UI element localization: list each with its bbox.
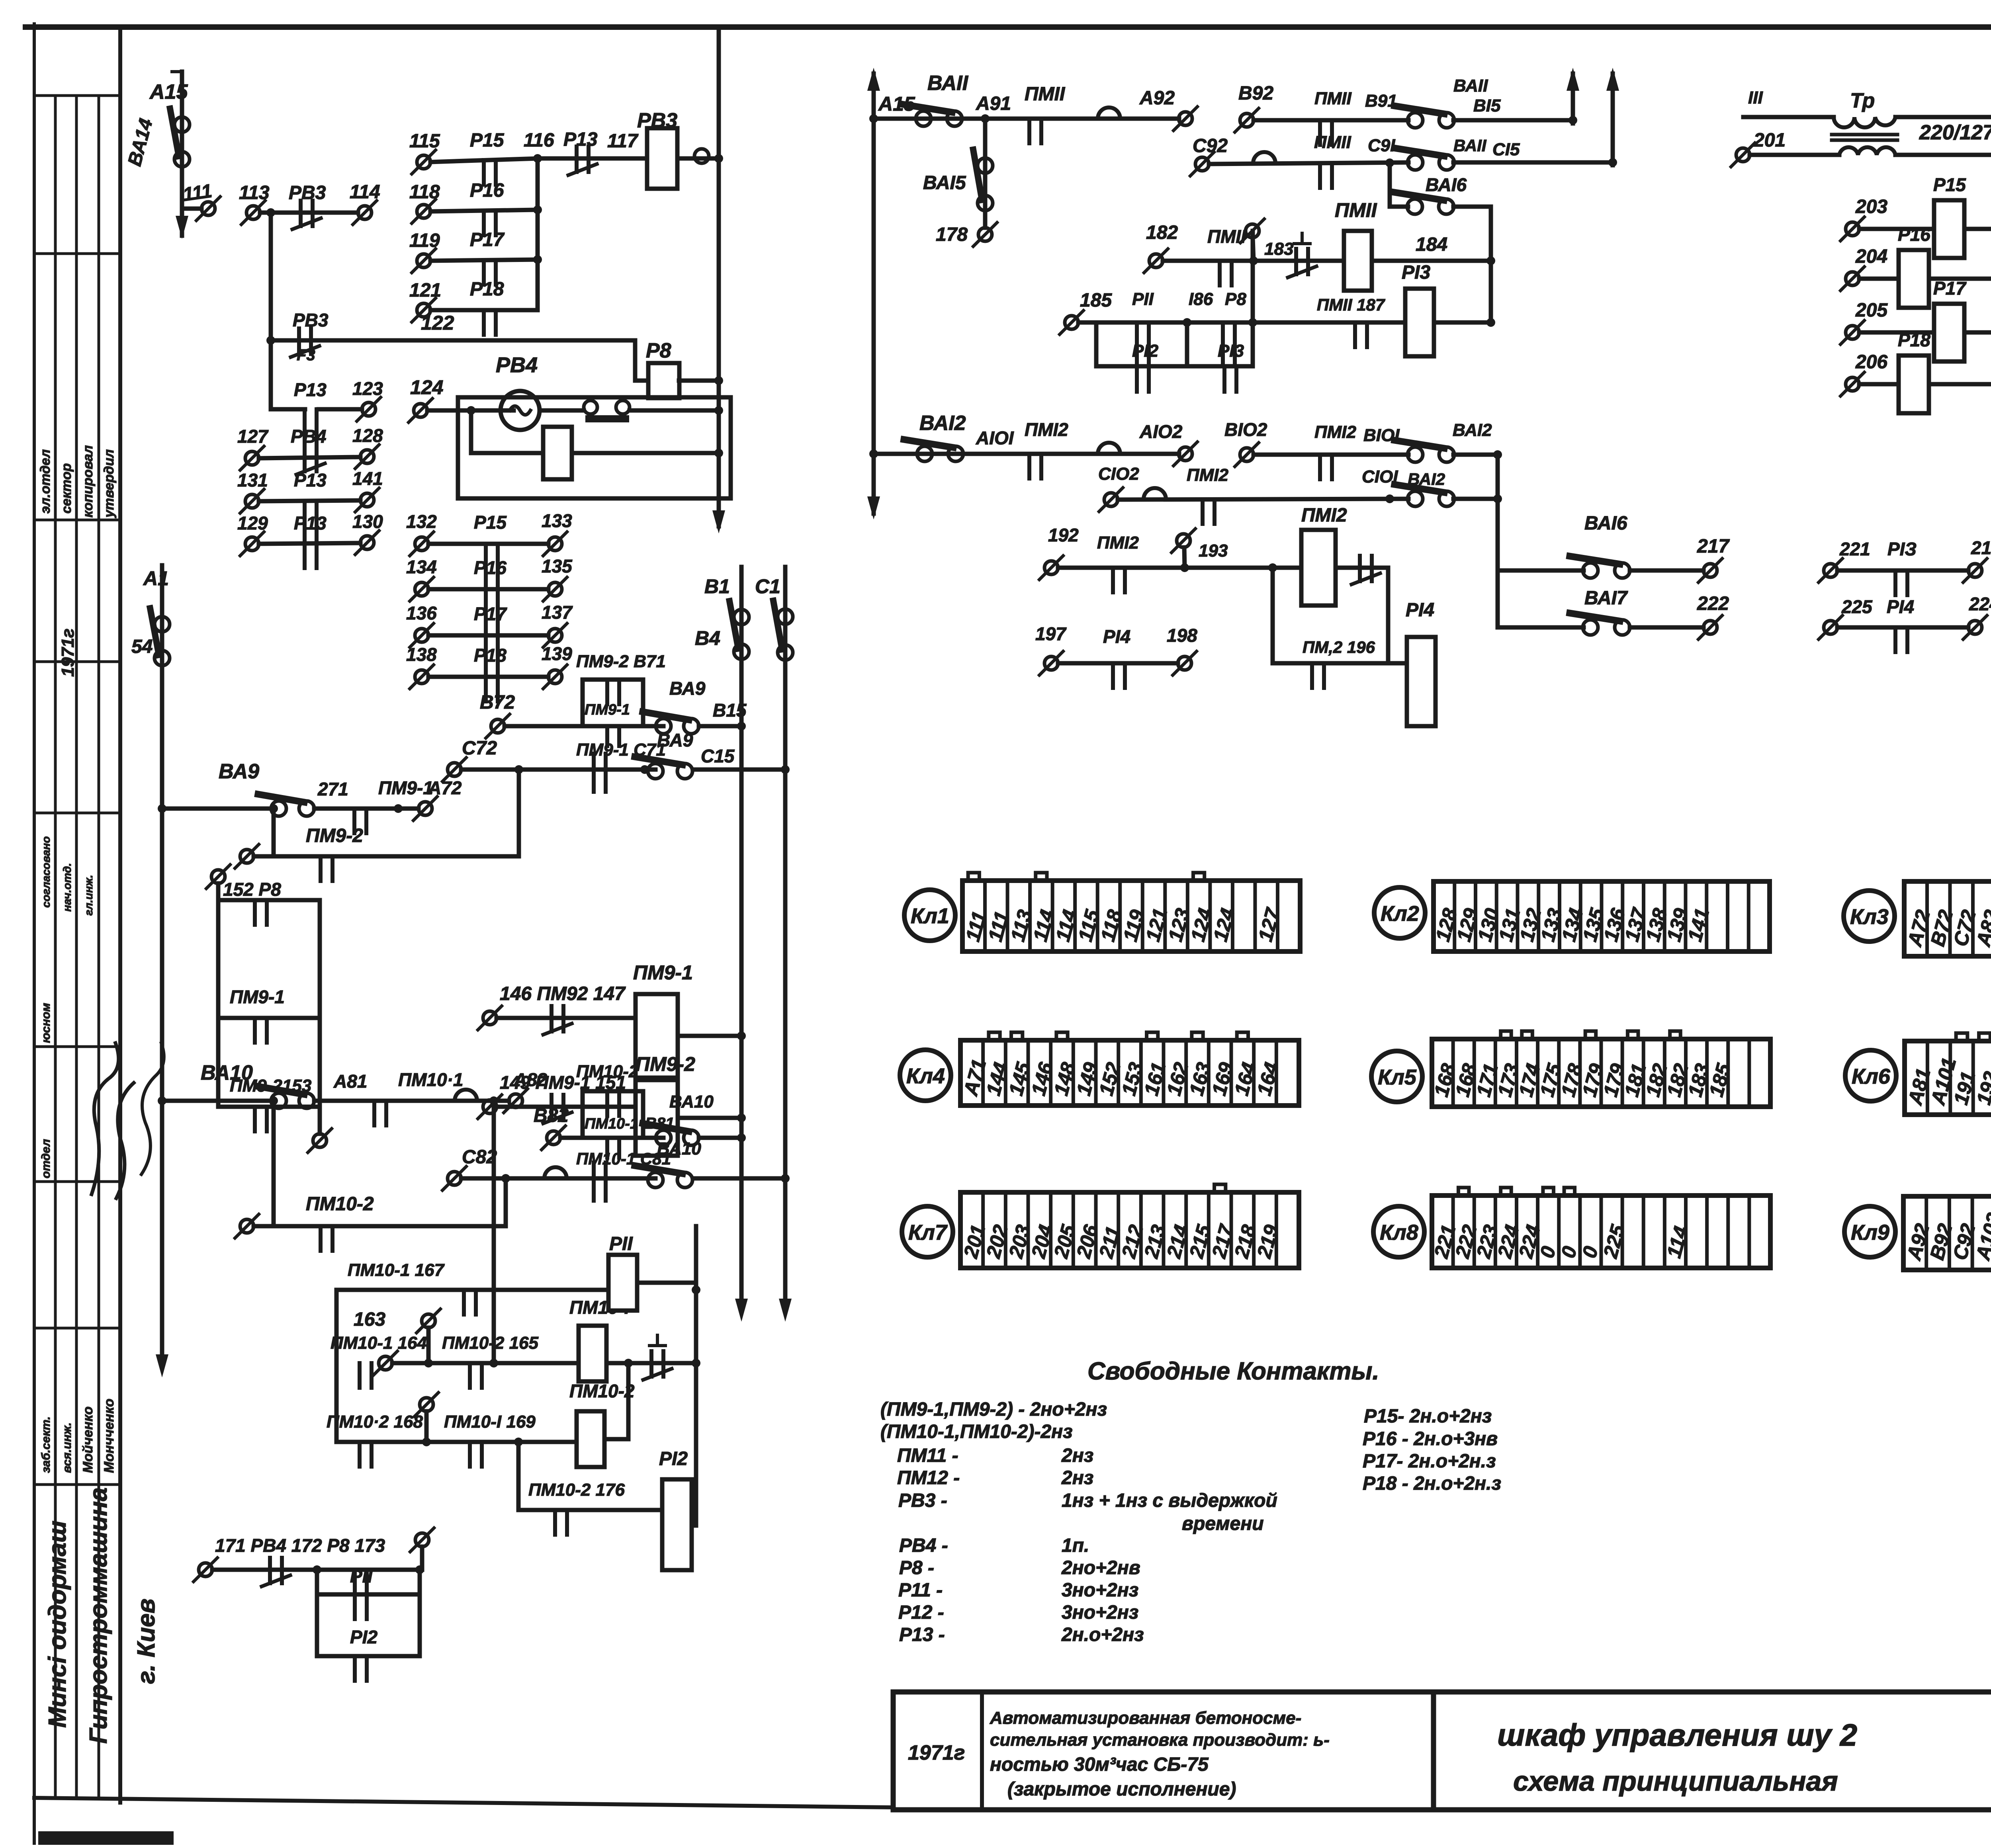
upper branch vertical 167 (334, 1290, 339, 1363)
svg-text:отдел: отдел (39, 1139, 53, 1178)
svg-text:192: 192 (1048, 525, 1079, 545)
svg-text:ПМI2: ПМI2 (1301, 505, 1347, 526)
wire 124 into PB4 box (427, 408, 514, 413)
stamp column line 3 (98, 96, 100, 1798)
switch BA11 A (916, 111, 931, 126)
title block v1 (980, 1692, 984, 1810)
svg-text:ПМ9-2: ПМ9-2 (306, 825, 363, 846)
svg-text:ПМ11 -: ПМ11 - (897, 1445, 958, 1466)
wire alternator to contact (540, 408, 584, 413)
switch BA10 A-phase (271, 1093, 286, 1108)
svg-text:ПМ10·2 168: ПМ10·2 168 (327, 1412, 423, 1432)
terminal A92 (1179, 112, 1192, 125)
coil PM11 (1344, 231, 1372, 291)
svg-text:Кл8: Кл8 (1380, 1221, 1418, 1244)
wire 225 row (1837, 625, 1968, 630)
terminal 203 (1846, 222, 1859, 236)
switch BA14 feeder line (180, 72, 184, 236)
contact PM9-1 149 time (550, 1095, 553, 1120)
svg-text:1971г: 1971г (58, 629, 78, 677)
junction C101 (1385, 494, 1394, 503)
contact PM10-1 169 (468, 1442, 472, 1467)
svg-text:ПМI2: ПМI2 (1314, 422, 1357, 442)
terminal 173 above (415, 1533, 429, 1547)
svg-text:ВАI2: ВАI2 (1453, 420, 1492, 440)
wire B72 row (505, 724, 663, 729)
svg-text:РI2: РI2 (350, 1627, 377, 1647)
svg-text:182: 182 (1146, 222, 1178, 243)
parallel box PM9-2/B71 left leg (581, 680, 585, 726)
svg-text:Кл4: Кл4 (906, 1064, 945, 1088)
vertical join 167-168 rows (334, 1290, 339, 1442)
terminal block Кл1 circle (904, 890, 955, 941)
junction C82 row (501, 1174, 510, 1183)
stamp divider 9 (34, 1483, 120, 1486)
svg-text:271: 271 (317, 779, 348, 799)
svg-text:131: 131 (237, 470, 268, 490)
bus C mid arrow (1606, 68, 1619, 91)
contact P13 221 (1893, 570, 1897, 595)
contact PM10-2 in box (605, 1091, 609, 1116)
transformer primary (1834, 117, 1895, 127)
parallel box right leg (641, 680, 645, 726)
svg-text:117: 117 (607, 131, 639, 152)
riser PM10-2 coil to 163 row (626, 1363, 631, 1439)
wire 185 row (1078, 320, 1406, 325)
drop to P14 coil row (1386, 568, 1391, 663)
contact PB4 171 time (268, 1558, 272, 1583)
svg-text:РI2: РI2 (659, 1448, 688, 1469)
riser PM10-2 row to C82 row (504, 1178, 508, 1226)
terminal 114 (358, 206, 372, 219)
wire B102 row (1254, 453, 1408, 457)
switch BA9 C-phase (648, 764, 663, 779)
svg-text:Минсі оидормаш: Минсі оидормаш (44, 1521, 71, 1728)
terminal 197 (1044, 656, 1058, 670)
svg-text:В92: В92 (1238, 83, 1273, 104)
svg-text:ПМII 187: ПМII 187 (1317, 295, 1385, 314)
terminal 178 (978, 228, 992, 241)
svg-text:54: 54 (131, 636, 153, 657)
P12 branch wire (317, 1654, 420, 1659)
terminal 205 (1846, 326, 1859, 339)
row BA10 wire (162, 1099, 271, 1103)
wire coil PM9-2 to B1 bus (678, 1116, 741, 1120)
svg-text:Мончченко: Мончченко (102, 1399, 117, 1473)
wire contact to bus (630, 408, 719, 413)
svg-text:ПМ10-1 167: ПМ10-1 167 (348, 1260, 445, 1280)
terminal 139 (548, 670, 562, 684)
terminal 136 (415, 629, 428, 642)
box 152 bottom row (218, 1105, 320, 1109)
svg-text:вся.инж.: вся.инж. (61, 1422, 74, 1473)
svg-text:Р15: Р15 (470, 130, 505, 151)
svg-text:Свободные Контакты.: Свободные Контакты. (1087, 1358, 1379, 1385)
wire P8 coil to bus (679, 379, 719, 383)
terminal 149 (483, 1100, 497, 1113)
sheet bottom border left part (34, 1798, 893, 1807)
drop B101 C101 vertical (1496, 455, 1500, 627)
PB4 inner coil (543, 427, 572, 479)
box 152 top row (218, 898, 320, 903)
stub 168 (424, 1411, 429, 1442)
svg-text:юсном: юсном (39, 1003, 53, 1043)
svg-text:А15: А15 (149, 80, 188, 104)
svg-text:РI4: РI4 (1103, 626, 1130, 647)
terminal 182 (1149, 254, 1163, 268)
terminal block Кл7 circle (902, 1206, 953, 1257)
svg-text:ВIО2: ВIО2 (1224, 419, 1267, 440)
svg-text:3но+2нз: 3но+2нз (1062, 1602, 1138, 1623)
terminal 192 (1044, 561, 1058, 574)
svg-text:СIО2: СIО2 (1098, 464, 1139, 484)
svg-text:197: 197 (1035, 623, 1067, 644)
row 119 terminal (417, 254, 430, 268)
wire 122 line (271, 338, 635, 343)
svg-text:согласовано: согласовано (40, 836, 52, 908)
wire BA17 row (1498, 625, 1584, 630)
wire 163 row (392, 1361, 576, 1365)
svg-text:129: 129 (237, 513, 268, 533)
svg-text:183: 183 (1264, 239, 1293, 259)
svg-text:А81: А81 (333, 1071, 367, 1092)
svg-text:АIО2: АIО2 (1139, 421, 1183, 442)
svg-text:205: 205 (1855, 300, 1888, 321)
terminal PM10-2 row left (240, 1219, 254, 1233)
svg-text:СI5: СI5 (1492, 140, 1520, 159)
contact P12 branch (353, 1656, 357, 1681)
parallel frame 185 bottom (1096, 364, 1253, 369)
svg-text:137: 137 (542, 602, 573, 623)
wire PM10-2 row (254, 1224, 506, 1229)
drop A82 to 164 row (492, 1101, 496, 1363)
wire 118 (430, 210, 538, 211)
svg-text:123: 123 (352, 378, 383, 399)
svg-text:сительная установка производит: сительная установка производит: ь- (990, 1730, 1330, 1750)
stub 183 vertical (1253, 238, 1254, 261)
terminal 206 (1846, 377, 1859, 391)
svg-text:С15: С15 (701, 746, 735, 766)
terminal 124 (414, 404, 427, 417)
wire coil PM9-1 to B1 bus (678, 1034, 741, 1038)
wire C92 row (1209, 162, 1408, 164)
svg-text:Кл5: Кл5 (1378, 1065, 1417, 1089)
svg-text:Р18: Р18 (1898, 330, 1930, 350)
wire BA16 right (1453, 205, 1491, 209)
svg-text:116: 116 (524, 130, 554, 151)
wire 121 (430, 308, 538, 313)
stamp divider 4 (34, 660, 120, 663)
switch BA14 (174, 117, 190, 132)
terminal 152 (211, 870, 225, 883)
svg-text:139: 139 (542, 643, 572, 664)
bus M arrow up (867, 68, 880, 91)
row BA9 wire (162, 807, 271, 811)
contact P8 172 (353, 1570, 357, 1594)
stamp divider 5 (34, 812, 120, 815)
coil Р17 205 (1934, 304, 1964, 361)
svg-text:ПМ10-2: ПМ10-2 (306, 1194, 374, 1215)
svg-text:г. Киев: г. Киев (133, 1598, 160, 1684)
coil Р16 204 (1899, 250, 1929, 308)
svg-text:ПМ10-2: ПМ10-2 (576, 1062, 639, 1081)
svg-text:Р8 -: Р8 - (899, 1557, 934, 1578)
svg-text:III: III (1748, 88, 1763, 107)
wire B101 out (1453, 453, 1498, 457)
svg-text:копировал: копировал (80, 445, 96, 518)
svg-text:Р12 -: Р12 - (898, 1602, 944, 1623)
wire row 136 (428, 633, 548, 638)
junction 165 (489, 1359, 498, 1367)
terminal 137 (548, 629, 562, 642)
svg-text:ВА9: ВА9 (669, 678, 706, 699)
terminal block Кл3 circle (1844, 891, 1895, 942)
svg-text:РII: РII (1132, 289, 1154, 309)
drawing frame left border (118, 27, 122, 1803)
svg-text:220/127: 220/127 (1919, 121, 1991, 144)
terminal block Кл4 circle (900, 1050, 951, 1101)
contact PM11 C row (1318, 163, 1322, 188)
terminal block Кл2 body (1434, 881, 1770, 951)
svg-text:2н.о+2нз: 2н.о+2нз (1061, 1624, 1144, 1645)
junction 169 (514, 1438, 523, 1446)
stamp divider 2 (34, 252, 120, 255)
svg-text:171 РВ4 172 Р8 173: 171 РВ4 172 Р8 173 (215, 1535, 385, 1556)
terminal block Кл1 body (962, 881, 1300, 951)
terminal 130 (360, 536, 374, 549)
stub 173 (420, 1547, 424, 1570)
svg-text:Р8: Р8 (646, 339, 671, 362)
contact P16 (482, 211, 486, 235)
wire B15 to B1 bus (699, 724, 741, 729)
terminal block Кл5 circle (1371, 1051, 1422, 1102)
stamp divider 8 (34, 1327, 120, 1330)
bus B1 (739, 567, 744, 1298)
svg-text:198: 198 (1167, 625, 1197, 646)
frame 185 mid leg (1185, 322, 1189, 366)
svg-text:ВА10: ВА10 (657, 1139, 701, 1158)
contact PM12 C row (1201, 499, 1205, 524)
terminal block Кл7 body (960, 1192, 1299, 1268)
svg-text:ВА9: ВА9 (219, 760, 259, 783)
svg-text:ПМ12 -: ПМ12 - (897, 1467, 960, 1489)
wire 184 (1372, 259, 1491, 263)
svg-text:Р16 - 2н.о+3нв: Р16 - 2н.о+3нв (1363, 1428, 1498, 1449)
contact P14 225 (1893, 627, 1897, 652)
terminal 146 (483, 1011, 497, 1025)
stamp divider 3 (34, 519, 120, 522)
contact P13 129 (303, 543, 307, 568)
terminal 183 above (1246, 224, 1259, 238)
svg-text:ПМ9-1: ПМ9-1 (633, 961, 693, 984)
wire BA16 row right (1498, 568, 1584, 573)
svg-text:Р13: Р13 (294, 513, 327, 533)
svg-text:РВ4 -: РВ4 - (899, 1535, 948, 1556)
label ground 163 row (649, 1344, 665, 1347)
terminal block Кл6 body (1905, 1041, 1991, 1115)
svg-text:1971г: 1971г (908, 1741, 965, 1764)
wire 204 row (1859, 277, 1991, 281)
parallel box top bar (583, 678, 643, 682)
wire 205 row (1859, 330, 1991, 335)
svg-text:152 Р8: 152 Р8 (223, 879, 281, 900)
terminal 193 above (1177, 534, 1190, 547)
svg-text:АIОI: АIОI (976, 428, 1014, 448)
contact PB3 time on 122 (297, 328, 301, 354)
contact PM12 192 (1111, 568, 1115, 592)
terminal 133 (548, 537, 562, 551)
terminal 138 (415, 670, 428, 684)
wire coil to cap 163 row (606, 1361, 696, 1365)
svg-text:ПМ10-2: ПМ10-2 (569, 1381, 635, 1401)
sheet left edge (33, 24, 36, 1843)
svg-text:РВ3: РВ3 (289, 182, 326, 203)
svg-text:ПМ9-1: ПМ9-1 (230, 987, 285, 1007)
junction 173 (415, 1565, 424, 1574)
svg-text:Гипростроммашина: Гипростроммашина (85, 1487, 112, 1744)
wire 197 row (1058, 661, 1178, 666)
svg-text:163: 163 (354, 1309, 385, 1330)
wire 176 row (518, 1508, 662, 1512)
svg-text:шкаф управления шу 2: шкаф управления шу 2 (1497, 1717, 1857, 1752)
wire C102 row (1118, 499, 1408, 500)
wire BA9 to A71 (314, 807, 390, 811)
svg-text:Р16: Р16 (474, 557, 507, 578)
parallel box PM10 left leg (581, 1091, 585, 1138)
svg-text:ностью 30м³час СБ-75: ностью 30м³час СБ-75 (990, 1754, 1209, 1775)
contact PB4 127 time (303, 446, 307, 471)
bus M vertical (872, 74, 876, 514)
svg-text:138: 138 (406, 644, 437, 665)
svg-text:А1: А1 (143, 567, 169, 590)
svg-text:заб.сект.: заб.сект. (39, 1416, 53, 1473)
svg-text:(ПМ9-1,ПМ9-2) - 2но+2нз: (ПМ9-1,ПМ9-2) - 2но+2нз (880, 1399, 1107, 1420)
cap contact 163 row (649, 1351, 653, 1377)
label cap 183 (1294, 242, 1310, 245)
svg-text:122: 122 (421, 312, 454, 334)
switch BA12 A (917, 446, 932, 461)
coil PM10-1 163 row (579, 1326, 606, 1381)
wire C15 to C bus (1453, 160, 1613, 165)
svg-text:В72: В72 (480, 692, 515, 713)
wire 146 row (497, 1016, 635, 1020)
svg-text:ПМ10-1 164: ПМ10-1 164 (331, 1333, 427, 1353)
bus C1 (783, 567, 788, 1298)
svg-text:В4: В4 (695, 627, 720, 649)
svg-text:Кл1: Кл1 (911, 904, 949, 928)
contact PM11 182 (1218, 261, 1222, 285)
switch BA10 C-phase (648, 1172, 663, 1188)
contact P11 branch (353, 1594, 357, 1619)
contact PM11 A row (1027, 119, 1031, 143)
title block outer (893, 1692, 1991, 1810)
contact PM9-1 on B72 row (605, 726, 609, 746)
terminal 134 (415, 582, 428, 596)
terminal 185 (1065, 316, 1078, 329)
svg-text:Р15- 2н.о+2нз: Р15- 2н.о+2нз (1364, 1406, 1492, 1427)
row 118 terminal (417, 205, 430, 218)
contact PM10-2 163 row (468, 1363, 472, 1388)
wire 127 row (259, 457, 360, 458)
svg-text:201: 201 (1753, 130, 1786, 151)
wire 201 row (1750, 153, 1839, 157)
wire BA17 to 222 (1630, 625, 1703, 630)
box 152 mid row (218, 1016, 320, 1020)
svg-text:Р13: Р13 (294, 379, 327, 400)
terminal block Кл6 circle (1845, 1050, 1896, 1101)
svg-text:184: 184 (1416, 234, 1447, 255)
svg-text:ВАI5: ВАI5 (923, 172, 966, 193)
bus A1 arrow (156, 1354, 168, 1377)
svg-text:Р17: Р17 (474, 604, 507, 624)
svg-text:225: 225 (1841, 596, 1873, 617)
hop C82 row (544, 1167, 567, 1178)
svg-text:136: 136 (406, 603, 437, 623)
svg-text:РI4: РI4 (1406, 600, 1434, 621)
svg-text:ПМ,2 196: ПМ,2 196 (1303, 638, 1375, 656)
terminal 123 (362, 402, 376, 416)
switch A1-A4 (155, 617, 170, 632)
svg-text:135: 135 (542, 556, 573, 576)
contact PM10-1 A row (372, 1101, 376, 1125)
title block v2 (1431, 1692, 1436, 1810)
svg-text:185: 185 (1080, 290, 1112, 311)
contact Р15 (484, 544, 488, 589)
contact PM12 B row (1318, 455, 1322, 479)
svg-text:132: 132 (406, 511, 437, 532)
svg-text:ВАII: ВАII (1453, 136, 1487, 155)
bus 183 down (1251, 231, 1255, 366)
hop A row BA10 (455, 1090, 477, 1101)
junction C row (640, 765, 649, 774)
terminal 132 (415, 537, 428, 551)
bottom-left fold bar (38, 1831, 174, 1845)
wire coil P12 to bus (692, 1508, 696, 1512)
wire P14 coil row (1273, 661, 1407, 666)
svg-text:Р13: Р13 (563, 129, 598, 150)
parallel box PM10 right leg (641, 1091, 645, 1138)
svg-text:Кл3: Кл3 (1850, 905, 1889, 929)
svg-text:А82: А82 (513, 1069, 548, 1090)
svg-text:А92: А92 (1139, 88, 1175, 109)
svg-text:133: 133 (542, 510, 572, 531)
wire coil P11 to bus (637, 1281, 696, 1285)
terminal 224 (1968, 621, 1982, 634)
svg-text:РIЗ: РIЗ (1887, 539, 1917, 559)
svg-text:124: 124 (410, 376, 443, 399)
upper branch wire 167 (336, 1288, 609, 1292)
PB4 inner coil line (471, 451, 719, 455)
wire to A72 (390, 807, 419, 811)
svg-text:F3: F3 (297, 346, 315, 364)
svg-text:219: 219 (1971, 537, 1991, 558)
svg-text:ВАI7: ВАI7 (1584, 588, 1628, 609)
svg-text:222: 222 (1697, 593, 1729, 614)
svg-text:114: 114 (350, 182, 380, 203)
wire 182 row (1163, 259, 1344, 263)
wire row 132 (428, 542, 548, 546)
svg-text:115: 115 (409, 131, 440, 152)
svg-text:Р16: Р16 (470, 180, 504, 201)
svg-text:1п.: 1п. (1062, 1535, 1089, 1556)
contact P15 (482, 160, 486, 185)
svg-text:Р13: Р13 (294, 470, 327, 490)
svg-text:Р18: Р18 (474, 645, 507, 666)
svg-text:ПМ10-2 165: ПМ10-2 165 (442, 1333, 539, 1353)
svg-text:ПМ10-I 169: ПМ10-I 169 (444, 1412, 536, 1432)
svg-text:221: 221 (1839, 539, 1870, 559)
wire to terminal 111 (182, 207, 201, 211)
